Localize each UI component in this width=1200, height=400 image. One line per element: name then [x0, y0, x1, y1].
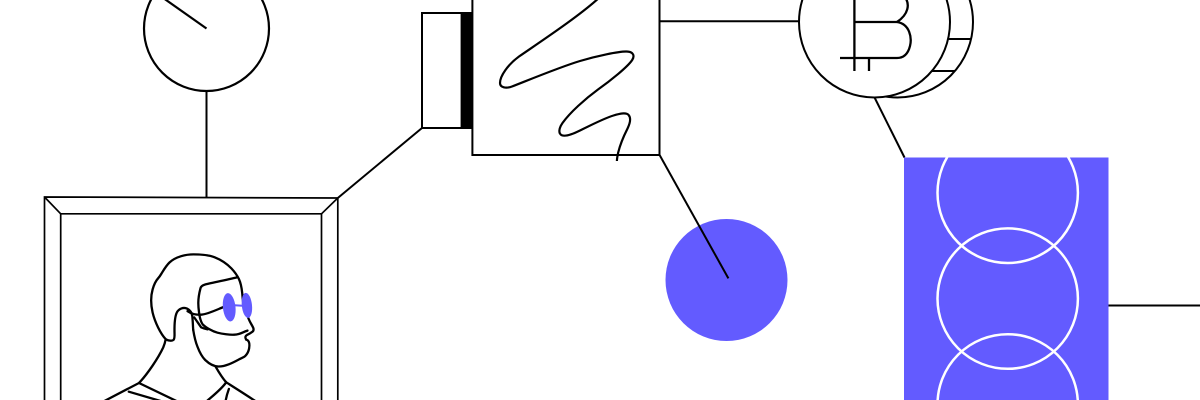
wire coin-to-card: [874, 97, 904, 158]
purple card: [904, 123, 1109, 400]
wire card-to-right: [1109, 305, 1200, 307]
bitcoin B stem: [853, 0, 855, 71]
clock face: [144, 0, 269, 91]
bitcoin coin front: [799, 0, 950, 98]
wire canvas-to-dot: [660, 155, 729, 278]
neck front: [216, 367, 227, 383]
glasses bridge: [235, 304, 243, 307]
canvas spine black bar: [462, 12, 473, 129]
right shoulder: [226, 382, 256, 400]
bitcoin B middle bar: [854, 21, 897, 23]
portrait man: [104, 254, 257, 400]
cheek line: [194, 318, 207, 330]
card circle 1: [938, 123, 1078, 263]
left lens: [221, 293, 236, 323]
collar right inner: [226, 389, 229, 400]
frame mitre top-left: [45, 197, 61, 214]
head outline: [104, 254, 254, 400]
clock stem: [206, 91, 208, 198]
purple dot: [666, 219, 788, 341]
coin edge mark upper: [948, 38, 971, 40]
glasses temple arm: [188, 307, 224, 315]
squiggle: [500, 0, 633, 161]
collar right outer: [208, 382, 227, 400]
picture frame outer: [45, 197, 338, 400]
glasses frame: [198, 277, 247, 334]
clock hand: [155, 0, 206, 29]
ear: [166, 308, 194, 341]
wire frame-to-canvas: [338, 128, 422, 198]
card circle 2: [938, 228, 1078, 368]
bitcoin coin back: [822, 0, 973, 98]
frame mitre top-right: [322, 198, 338, 214]
right lens: [241, 292, 254, 318]
bitcoin B bottom prong: [868, 58, 870, 71]
coin edge mark lower: [932, 70, 955, 72]
card circle 3: [938, 334, 1078, 400]
bitcoin B lower bowl and bottom bar: [840, 22, 911, 58]
wire canvas-to-coin: [660, 20, 801, 22]
canvas side panel: [422, 13, 462, 128]
picture frame inner: [61, 214, 322, 400]
left collar line 2: [129, 392, 164, 400]
bitcoin B upper bowl: [897, 0, 908, 22]
left collar line 1: [139, 383, 179, 400]
canvas: [472, 0, 659, 155]
beard: [193, 330, 249, 367]
